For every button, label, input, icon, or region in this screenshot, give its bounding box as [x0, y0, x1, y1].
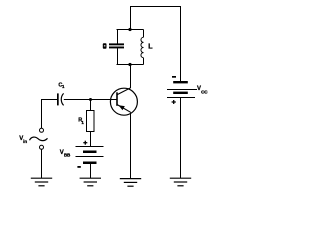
ground (Vbb): [80, 178, 101, 186]
svg-text:1: 1: [62, 84, 65, 89]
wire Vcc top lead: [180, 7, 182, 82]
wire Vcc to ground: [180, 98, 182, 178]
label C: [103, 43, 107, 49]
ground (Vin): [31, 178, 52, 186]
inductor L coil: [141, 37, 144, 57]
transistor Q1 base bar: [116, 92, 118, 106]
wire cap branch top: [117, 30, 119, 44]
transistor Q1 collector stroke: [117, 88, 131, 95]
battery Vcc plate 3 thick: [173, 92, 188, 94]
wire R1 to battery Vbb: [90, 132, 92, 147]
capacitor C top plate: [109, 43, 124, 45]
wire Vin to ground: [41, 149, 43, 178]
ground (emitter): [120, 179, 141, 187]
capacitor C bottom plate: [109, 47, 124, 49]
battery Vcc plate 4 long: [167, 97, 195, 99]
capacitor C1 right curved plate: [61, 93, 63, 105]
battery Vbb minus sign: [77, 166, 80, 168]
wire emitter lead: [130, 112, 132, 178]
svg-text:CC: CC: [201, 89, 208, 94]
node tank bottom junction: [128, 63, 131, 66]
transistor Q1 emitter arrow (PNP): [119, 105, 125, 110]
wire inductor branch top: [143, 30, 145, 38]
battery Vbb plus sign: [83, 141, 87, 145]
wire tank top to rail: [130, 7, 132, 30]
node base junction: [89, 98, 92, 101]
node tank top junction: [128, 28, 131, 31]
wire Vin top to capacitor C1: [42, 100, 58, 129]
battery Vbb plate 4 thick: [83, 162, 97, 165]
transistor Q1 emitter stroke: [117, 105, 131, 113]
capacitor C1 left plate: [57, 93, 59, 105]
source Vin sine symbol: [30, 137, 48, 141]
source Vin lower terminal: [40, 145, 44, 149]
resistor R1 body: [87, 111, 95, 132]
battery Vcc minus sign: [172, 76, 176, 78]
svg-text:L: L: [148, 41, 153, 50]
battery Vcc plate 1 thick: [173, 81, 188, 83]
wire cap branch bottom: [117, 48, 119, 64]
source Vin upper terminal: [40, 128, 44, 132]
svg-text:1: 1: [81, 120, 84, 125]
wire tank bottom: [117, 64, 144, 66]
svg-text:BB: BB: [64, 153, 71, 158]
battery Vbb plate 3 long: [76, 156, 104, 158]
battery Vbb plate 1 long: [76, 146, 104, 148]
wire inductor branch bottom: [143, 58, 145, 65]
ground (Vcc): [170, 178, 191, 186]
wire top rail: [130, 6, 181, 8]
wire capacitor C1 to base: [64, 99, 117, 101]
wire tank top: [117, 29, 144, 31]
wire base junction to R1: [90, 100, 92, 111]
battery Vcc plus sign: [172, 100, 176, 104]
transistor Q1 circle: [110, 88, 137, 115]
wire Vbb to ground: [90, 164, 92, 178]
svg-text:in: in: [23, 139, 27, 144]
battery Vcc plate 2 long: [167, 89, 197, 91]
battery Vbb plate 2 thick: [83, 151, 97, 154]
wire collector lead: [130, 65, 132, 89]
